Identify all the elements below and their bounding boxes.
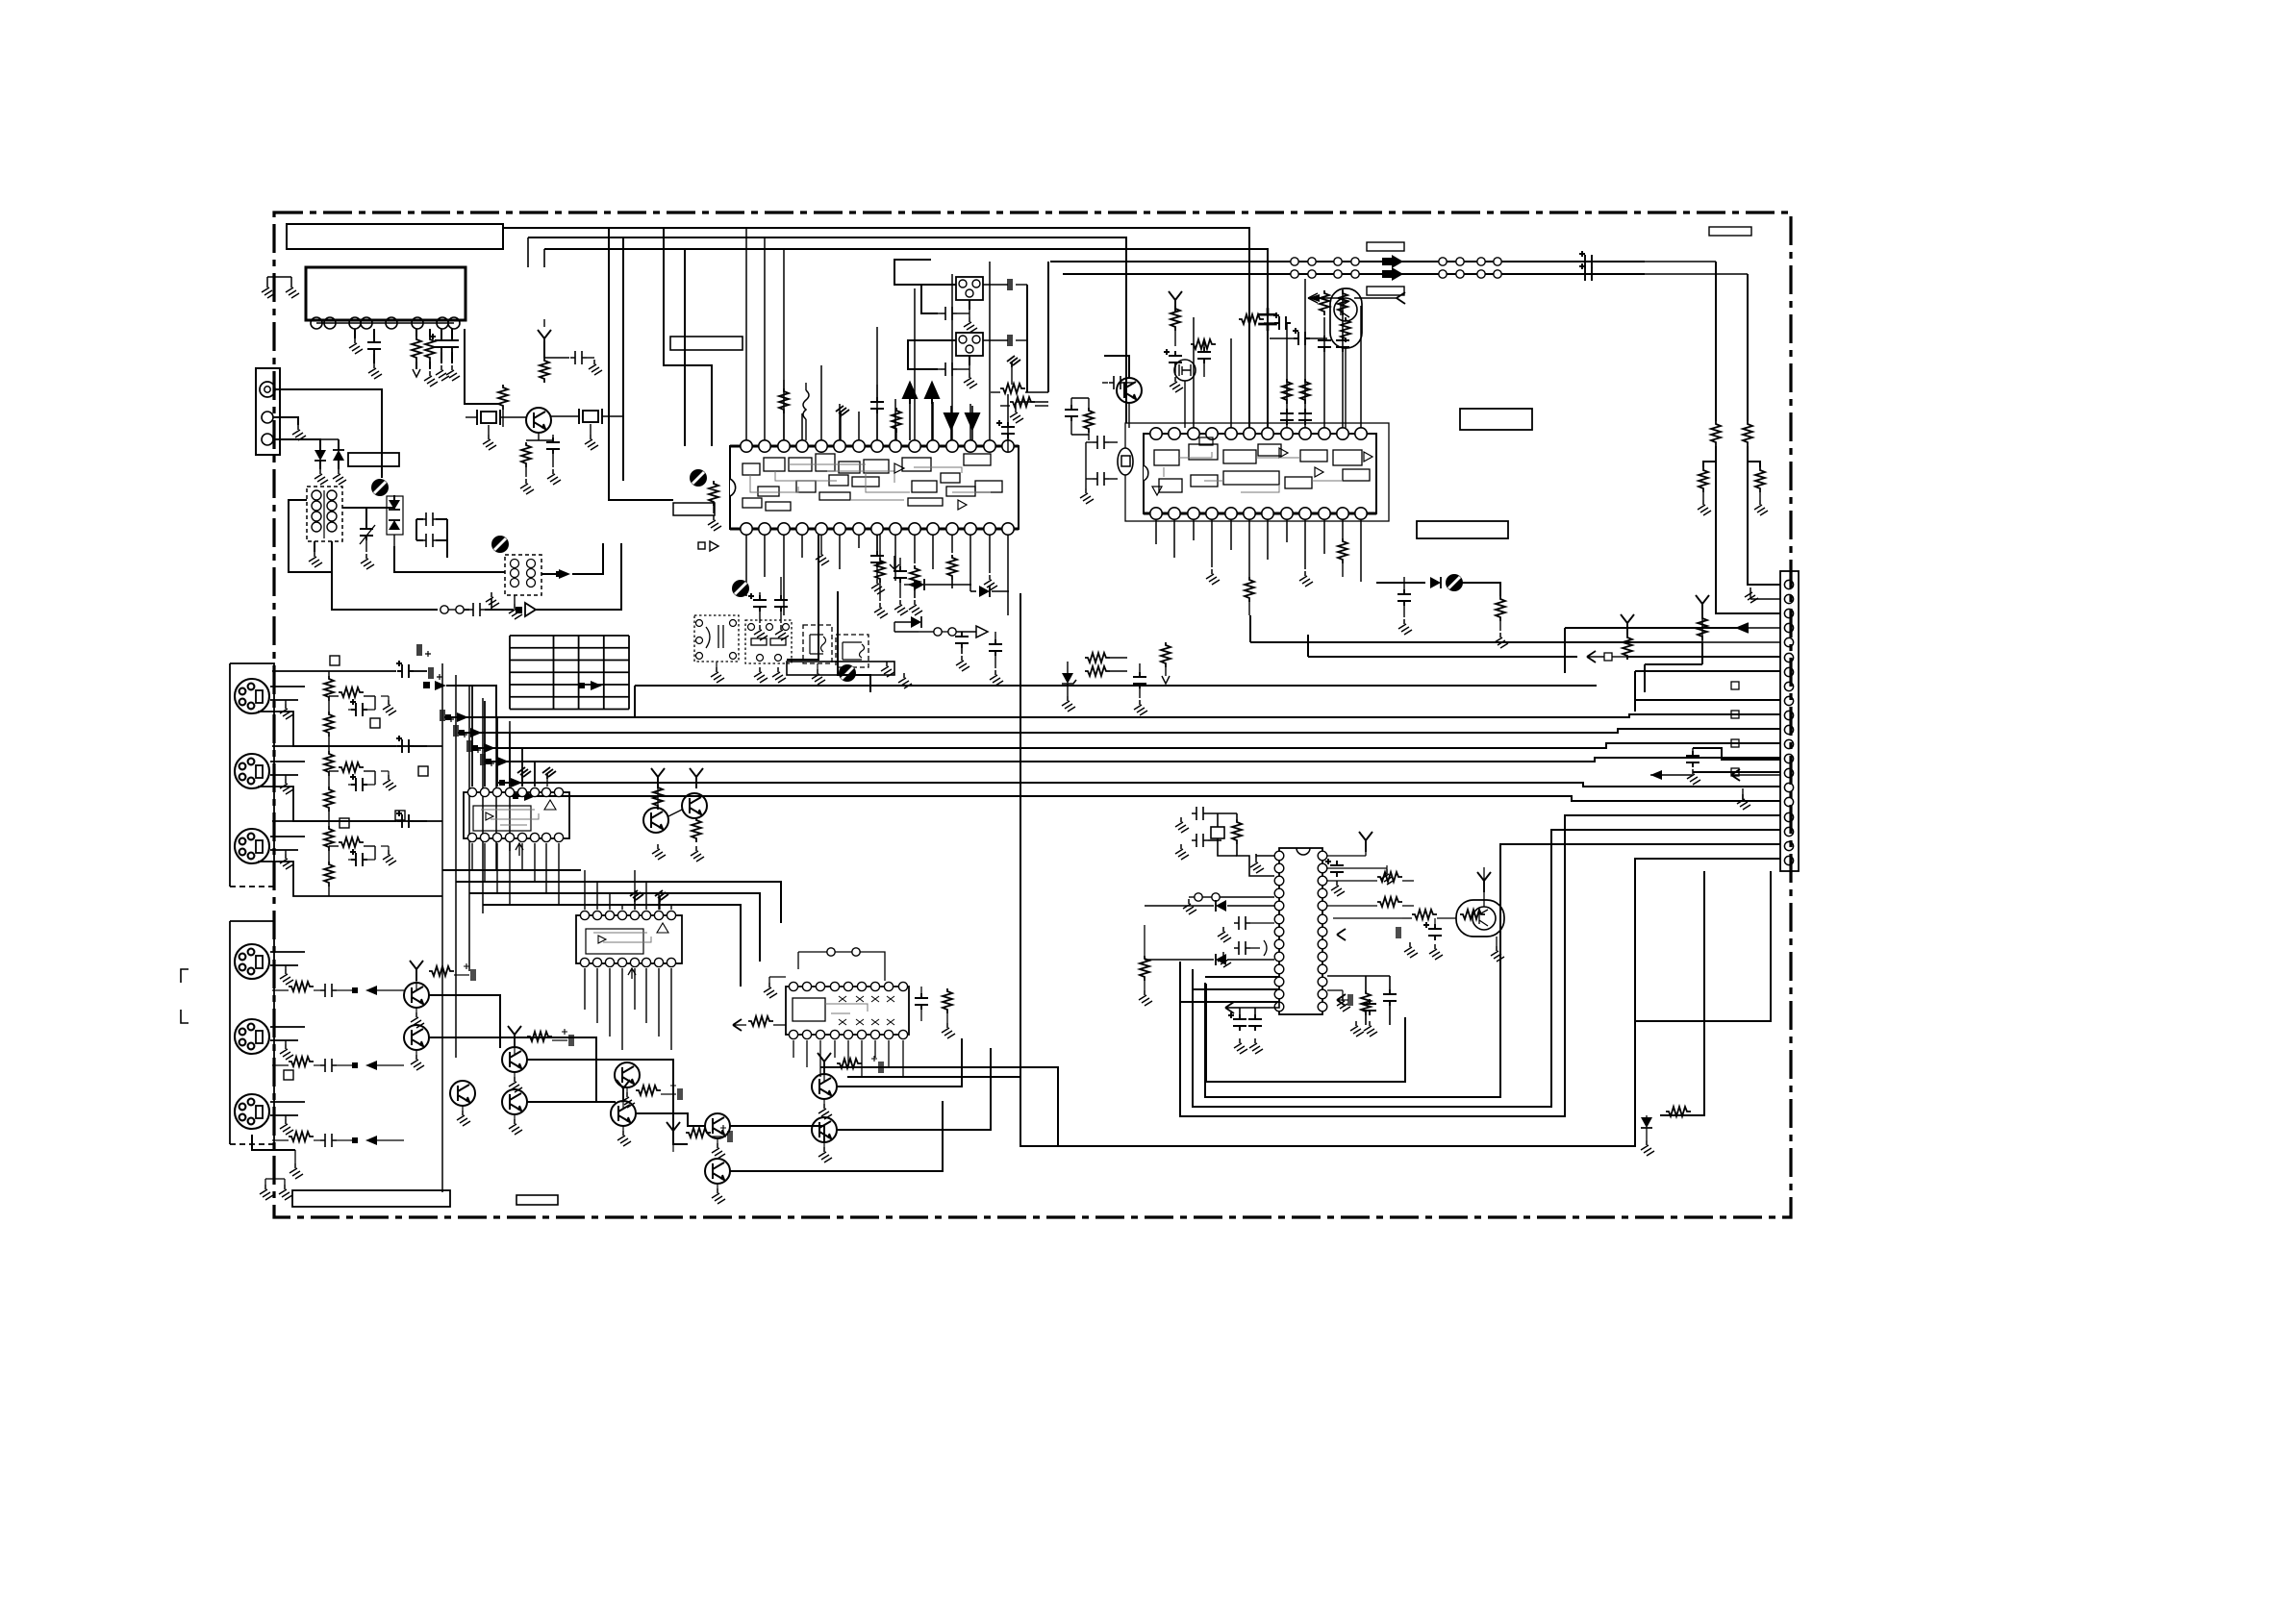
wire T1 right to varactor	[342, 495, 394, 508]
IC U1 pin	[1002, 523, 1014, 535]
wire IC U1 pin feed	[839, 404, 841, 440]
wire tuning bus 1	[1050, 261, 1645, 262]
resistor	[1338, 538, 1347, 563]
IC U1 pin	[965, 523, 976, 535]
wire IC U4 pin down	[509, 843, 511, 905]
capacitor	[451, 329, 453, 338]
IC U1 internal block	[839, 462, 860, 473]
zener diode	[1062, 673, 1073, 684]
IC U8 pin	[1274, 939, 1284, 949]
resistor	[498, 385, 508, 410]
IC U2 pin	[1319, 508, 1330, 519]
IC U1 pin	[816, 523, 827, 535]
resistor to ground	[1748, 462, 1760, 467]
IC U4 pin	[530, 833, 539, 841]
connector CN7 pin	[1784, 653, 1793, 662]
connector CN7 pin	[1784, 841, 1793, 850]
diode	[914, 579, 924, 590]
ground	[383, 850, 396, 865]
bold arrow down	[966, 413, 979, 429]
wire IC U5 pin down	[670, 968, 672, 1050]
transistor	[502, 1089, 527, 1114]
IC U8 pin	[1274, 914, 1284, 924]
capacitor	[1093, 472, 1109, 486]
wire feeder	[684, 249, 686, 446]
wire IC U1 pin down	[969, 535, 971, 591]
wire IC U6 pin down	[847, 1040, 849, 1067]
wire bottom run	[837, 1048, 991, 1130]
IC U5 pin	[580, 911, 589, 919]
junction	[1456, 258, 1464, 265]
resistor	[748, 1016, 773, 1026]
IC U1 internal block	[941, 473, 960, 483]
wire row 713 stub	[446, 686, 496, 717]
wire IC U1 pin down	[839, 535, 841, 569]
wire down-right	[1376, 582, 1425, 584]
ecap	[1293, 328, 1310, 345]
resistor inside	[1460, 910, 1485, 919]
wire IC U6 pin down	[834, 1040, 836, 1058]
IC U4 pin	[517, 833, 526, 841]
trimmer capacitor	[365, 519, 367, 527]
junction chain	[934, 628, 942, 636]
IC U8 pin	[1318, 901, 1327, 911]
IC U1 pin	[741, 523, 752, 535]
wire DIN stubs	[270, 836, 305, 837]
arrow row 713	[423, 682, 430, 688]
IC U6 pin	[870, 982, 879, 990]
resistor	[1666, 1107, 1691, 1116]
IC U1 internal block	[964, 454, 991, 465]
wire IC U4 pin down	[496, 843, 498, 893]
IC U4 pin	[492, 787, 501, 796]
tuner pin	[324, 317, 336, 329]
IC U2 pin	[1262, 508, 1273, 519]
wire DIN top feed	[272, 745, 396, 747]
wire routing row	[469, 893, 760, 962]
trap coil dashed box 2	[836, 635, 869, 667]
filter block dotted box	[694, 615, 739, 662]
wire DIN bottom feed	[258, 862, 442, 896]
antenna resistor feed 2	[1621, 614, 1634, 635]
IC U1 internal block	[946, 487, 975, 496]
IC U6 pin	[857, 982, 866, 990]
wire bottom run	[429, 1037, 596, 1102]
IC U1 pin	[927, 440, 939, 452]
antenna	[651, 768, 665, 788]
wire IC U5 pin up	[634, 870, 636, 910]
IC U8 pin	[1274, 989, 1284, 999]
transistor	[705, 1159, 730, 1184]
capacitor right of IC6	[915, 993, 928, 1010]
wire bus B	[528, 237, 1126, 423]
feed arrows upper	[445, 714, 451, 720]
IC U1 pin	[927, 523, 939, 535]
varicap diode pair	[389, 500, 400, 510]
connector CN7 pin	[1784, 812, 1793, 821]
IC U2 internal block	[1258, 444, 1281, 456]
capacitor	[543, 319, 545, 327]
IC U6 pin	[870, 1030, 879, 1038]
IC U2 internal block	[1191, 475, 1218, 487]
IC U4 pin	[541, 787, 550, 796]
antenna marker	[538, 330, 551, 350]
resistor pot	[709, 481, 718, 506]
IC U1 pin	[965, 440, 976, 452]
IC U8 pin	[1274, 863, 1284, 873]
wire right bottom drop	[1660, 871, 1704, 1115]
IC U1 pin	[778, 440, 790, 452]
wire IC U5 pin up	[670, 905, 672, 910]
bold arrow up	[903, 383, 917, 404]
wire DIN bottom feed	[258, 787, 442, 821]
junction pair above IC6	[827, 948, 835, 956]
wire CN loop	[894, 260, 931, 285]
transistor Q1	[526, 408, 551, 433]
AC ground	[1007, 356, 1020, 367]
wire lower chain	[332, 541, 438, 610]
IC U2 internal block	[1189, 444, 1218, 460]
resistor	[1232, 819, 1242, 844]
IC U5 pin	[642, 911, 650, 919]
resistor in Q4	[1341, 317, 1350, 342]
wire pin3 ground	[354, 329, 356, 338]
arrow stub	[1737, 627, 1780, 629]
IC U1 pin	[890, 440, 901, 452]
IC U4 pin	[517, 787, 526, 796]
connector CN3	[956, 277, 983, 300]
wire IC U1 pin feed	[969, 404, 971, 440]
IC U6 body	[786, 987, 909, 1035]
below IC8 grounds	[1228, 1012, 1246, 1031]
resistor	[339, 762, 364, 772]
wire T2 ground	[514, 595, 516, 604]
label box right lower	[1417, 521, 1508, 538]
connector DIN	[235, 679, 269, 713]
tail	[1337, 929, 1346, 940]
wire vertical bus	[468, 687, 470, 971]
IC U2 pin	[1150, 428, 1162, 439]
wire IC U2 pin down	[1155, 519, 1157, 544]
diode cap right	[983, 339, 1008, 341]
connector group box 2	[230, 921, 274, 1144]
capacitor above IC2 pin7	[1280, 409, 1294, 425]
resistor	[1085, 666, 1110, 676]
IC U2 pin	[1244, 428, 1255, 439]
transistor	[502, 1047, 527, 1072]
junction	[1494, 258, 1501, 265]
IC U1 internal block	[829, 475, 848, 486]
connector DIN	[235, 1019, 269, 1054]
IC U1 internal block	[758, 487, 779, 496]
wire bottom run	[730, 1126, 824, 1142]
IC U6 internal block	[793, 998, 825, 1021]
transformer T1	[307, 487, 342, 541]
IC U1 pin	[871, 523, 883, 535]
transistor	[615, 1062, 640, 1087]
resistor	[692, 817, 701, 842]
resistor	[1239, 314, 1264, 324]
connector CN7 pin	[1784, 856, 1793, 864]
resistor	[1361, 990, 1371, 1015]
wire IC U4 pin down	[521, 843, 523, 870]
ground	[881, 662, 894, 677]
antenna right of IC8	[1359, 832, 1372, 852]
wire row 668 long	[1250, 641, 1702, 643]
IC U1 internal wiring	[750, 475, 798, 492]
junction	[1477, 258, 1485, 265]
wire mid row	[471, 743, 1780, 748]
output marker	[698, 542, 705, 549]
capacitor above IC2 pin8	[1298, 409, 1312, 425]
IC U6 pin	[789, 982, 797, 990]
resistor ladder upper	[324, 676, 334, 701]
wire connector stub	[1693, 771, 1780, 773]
IC U1 pin	[834, 440, 845, 452]
IC U1 pin	[796, 523, 808, 535]
wire bottom run	[527, 1060, 688, 1144]
IC U8 pin	[1274, 876, 1284, 886]
wire loop 4	[1205, 844, 1780, 1097]
IC U4 pin	[480, 787, 489, 796]
wire row 713 continue	[635, 685, 1597, 687]
wire vertical bus	[509, 721, 511, 851]
IC U5 pin	[630, 958, 639, 966]
IC U8 pin	[1318, 964, 1327, 974]
antenna stub	[1696, 595, 1709, 615]
connector CN7 pin	[1784, 711, 1793, 719]
ground	[1010, 408, 1023, 423]
wire Q4 left arrow	[1308, 297, 1337, 299]
wire mid vertical	[787, 535, 818, 660]
transistor	[450, 1081, 475, 1106]
label box top right	[1709, 227, 1751, 236]
wire T1 ground	[314, 541, 315, 552]
IC U2 pin	[1225, 508, 1237, 519]
wire feeder	[622, 237, 624, 481]
wire IC U1 pin down	[951, 535, 953, 553]
resistor	[1161, 642, 1171, 667]
wire feeder	[664, 228, 712, 446]
capacitor	[320, 984, 337, 997]
ground stub chain	[486, 592, 499, 608]
tail resistor left	[733, 1019, 742, 1031]
IC U2 pin	[1150, 508, 1162, 519]
IC U1 internal block	[975, 481, 1002, 492]
IC U2 body	[1144, 434, 1376, 513]
IC U2 internal block	[1159, 479, 1182, 492]
resistor	[339, 837, 364, 847]
IC U1 pin	[816, 440, 827, 452]
wire IC U1 pin feed	[894, 399, 896, 440]
tail right	[1731, 769, 1740, 781]
label box	[1367, 242, 1404, 251]
IC U1 pin	[853, 440, 865, 452]
IC U8 pin	[1274, 888, 1284, 898]
wire IC U1 pin feed	[989, 262, 991, 440]
wire DIN top feed	[272, 820, 396, 822]
resistor	[1320, 290, 1329, 315]
connector CN7 pin	[1784, 594, 1793, 603]
IC U8 pin	[1318, 927, 1327, 937]
connector CN7 pin	[1784, 739, 1793, 748]
IC U2 pin	[1244, 508, 1255, 519]
IC U6 pin	[857, 1030, 866, 1038]
capacitor	[1093, 436, 1109, 449]
wire IC U2 pin down	[1360, 519, 1362, 582]
ecap Q7	[1423, 922, 1442, 940]
IC U1 internal block	[796, 481, 816, 492]
IC U2 internal block	[1223, 471, 1279, 485]
wire IC U1 pin feed	[820, 365, 822, 440]
IC U8 pin	[1274, 964, 1284, 974]
IC U1 internal block	[902, 458, 931, 471]
resistor	[1140, 956, 1149, 981]
wire IC U5 pin down	[634, 968, 636, 1010]
resistor ladder upper	[324, 826, 334, 851]
IC U8 body	[1279, 848, 1322, 1014]
IC U1 pin	[1002, 440, 1014, 452]
wire IC U2 pin down	[1193, 519, 1195, 540]
wire Q4 right tail	[1354, 297, 1397, 299]
IC U5 pin	[654, 911, 663, 919]
wire mid row	[458, 729, 1780, 733]
IC U1 pin	[778, 523, 790, 535]
wire IC U1 pin feed	[1007, 394, 1009, 440]
wire IC U1 pin down	[932, 535, 934, 569]
wire tuner pin8 down	[465, 329, 500, 404]
IC U4 pin	[505, 833, 514, 841]
electrolytic capacitor	[396, 811, 414, 828]
IC U2 pin	[1169, 428, 1180, 439]
wire IC U6 pin down	[861, 1040, 863, 1077]
IC U8 pin	[1318, 952, 1327, 962]
wire IC U1 pin down	[989, 535, 991, 573]
electrolytic capacitor	[396, 736, 414, 753]
wire vertical bus	[441, 663, 443, 1192]
IC U2 pin	[1281, 508, 1293, 519]
capacitor	[320, 1059, 337, 1072]
IC U8 pin	[1274, 1002, 1284, 1012]
ground Q7	[1491, 946, 1504, 962]
wire IC U1 pin down	[783, 535, 785, 615]
transistor	[812, 1074, 837, 1099]
wire chain to T2	[394, 546, 505, 572]
wire IC U5 pin down	[609, 968, 611, 1037]
wire DIN stubs	[270, 1101, 305, 1103]
ground	[816, 550, 829, 565]
wire Q4 down	[1345, 348, 1347, 428]
IC U8 pin	[1274, 901, 1284, 911]
wire IC U6 pin down	[793, 1040, 794, 1058]
electrolytic capacitor	[350, 699, 367, 716]
wire RF pin3	[273, 439, 320, 444]
wire DIN stubs	[270, 686, 305, 687]
wire IC U1 pin down	[764, 535, 766, 577]
IC U1 internal block	[819, 492, 850, 500]
IC U6 pin	[884, 982, 893, 990]
wire routing row	[483, 905, 741, 987]
wire bus C	[544, 249, 1268, 428]
wire IC U6 pin down	[819, 1040, 821, 1077]
IC U4 pin	[492, 833, 501, 841]
wire IC8 routing	[1180, 1001, 1279, 1003]
wire IC U5 pin down	[621, 968, 623, 1050]
wire RF shield ground	[273, 417, 298, 425]
IC U4 pin	[467, 787, 476, 796]
IC U1 pin	[834, 523, 845, 535]
ground stub	[1750, 598, 1780, 600]
ground	[898, 673, 912, 688]
connector DIN	[235, 1094, 269, 1129]
resistor ladder lower	[324, 712, 334, 737]
board outline dash-dot border	[274, 212, 1791, 1217]
transistor Q6	[682, 793, 707, 818]
crystal X1	[477, 410, 500, 425]
resistor	[1496, 596, 1505, 621]
IC U5 pin	[580, 958, 589, 966]
bus arrow	[1382, 267, 1403, 281]
resistor	[1010, 397, 1035, 407]
IC U1 pin	[871, 440, 883, 452]
IC U4 pin	[467, 833, 476, 841]
bold arrow down	[944, 413, 958, 429]
crystal cluster above IC8	[1175, 817, 1189, 833]
IC U4 pin	[541, 833, 550, 841]
jumper square	[1731, 682, 1739, 689]
IC U2 internal block	[1285, 477, 1312, 488]
IC U1 pin	[909, 440, 920, 452]
wire IC U4 pin up	[471, 686, 473, 787]
connector CN7 pin	[1784, 754, 1793, 762]
resistor below IC1	[910, 565, 919, 590]
capacitor	[1197, 347, 1211, 363]
wire IC U4 pin down	[484, 843, 486, 882]
wire IC U1 pin feed	[745, 228, 747, 440]
wire IC U4 pin down	[471, 843, 473, 870]
bold arrow up	[925, 383, 939, 404]
ground cap cluster	[1687, 769, 1700, 785]
tuner pin	[412, 317, 423, 329]
connector CN7 pin	[1784, 637, 1793, 646]
wire IC U4 pin up	[509, 732, 511, 787]
wire IC U6 pin down	[806, 1040, 808, 1067]
wire loop 3	[1193, 830, 1780, 1107]
IC U8 pin	[1318, 851, 1327, 861]
wire IC U1 pin down	[876, 535, 878, 551]
connector DIN	[235, 829, 269, 863]
wire tuner pin interconnect	[316, 322, 454, 324]
wire crystal ground	[488, 425, 490, 435]
wire Q7 up	[1483, 867, 1485, 881]
wire conn6 down	[252, 1135, 295, 1150]
ground	[1337, 996, 1350, 1012]
IC U6 pin	[802, 982, 811, 990]
capacitor	[955, 632, 969, 648]
junction	[1439, 258, 1447, 265]
wire feed row 691	[1645, 663, 1702, 665]
resistor	[1338, 290, 1347, 315]
connector DIN	[235, 944, 269, 979]
IC U2 pin	[1188, 428, 1199, 439]
resistor above IC2 pin7	[1282, 379, 1292, 404]
IC U1 body	[730, 446, 1019, 529]
wire DIN top feed	[272, 670, 396, 672]
wire IC U5 pin up	[645, 882, 647, 910]
resistor Q7 base	[1412, 910, 1437, 919]
IC U6 pin	[830, 982, 839, 990]
IC U6 pin	[830, 1030, 839, 1038]
